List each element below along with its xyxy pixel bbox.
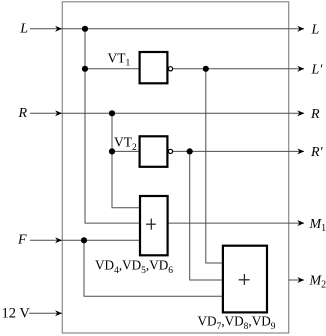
wire L branch down to adder VD4-6 input 2 [85, 69, 140, 223]
wire F branch down to adder VD7-9 input 3 [84, 240, 223, 296]
wire F line to adder VD4-6 input 3 [62, 239, 140, 241]
wire R' output from VT2 bubble to arrow [173, 150, 304, 152]
wire R branch down to adder VD4-6 input 1 [112, 151, 140, 207]
wire F input with arrow into block [30, 239, 62, 241]
outer block boundary [62, 2, 288, 333]
plus sign in VD4-6 adder [146, 219, 156, 230]
wire R line through block to output arrow [62, 112, 304, 114]
transistor switch VT1 box [140, 52, 168, 83]
inverter bubble of VT2 [168, 149, 172, 153]
node L' junction [203, 66, 209, 72]
node VT2 input junction [109, 148, 115, 154]
node F junction [81, 237, 87, 243]
node R' junction [187, 148, 193, 154]
node VT1 input junction [82, 66, 88, 72]
wire 12V input with arrow into block [29, 312, 62, 314]
wire VT2 input segment [111, 113, 113, 151]
svg-text:R: R [17, 106, 27, 121]
wire M2 output stub to arrow [289, 279, 304, 281]
svg-text:R′: R′ [310, 145, 324, 160]
svg-text:F: F [17, 233, 27, 248]
svg-text:L′: L′ [311, 63, 324, 78]
svg-text:R: R [310, 107, 320, 122]
wire VT1 input segment [84, 29, 86, 69]
wire R input with arrow into block [30, 112, 62, 114]
svg-text:12 V: 12 V [2, 305, 31, 321]
plus sign in VD7-9 adder [239, 274, 250, 285]
transistor switch VT2 box [140, 136, 168, 167]
diode adder VD4,VD5,VD6 box [140, 196, 168, 255]
wire R' branch down to adder VD7-9 input 2 [190, 151, 223, 280]
wire M1 output from adder VD4-6 to arrow [168, 222, 305, 224]
wire L' output from VT1 bubble to arrow [173, 68, 304, 70]
diode adder VD7,VD8,VD9 box [223, 246, 267, 313]
node L junction [82, 26, 88, 32]
svg-text:L: L [311, 23, 320, 38]
wire L' branch down to adder VD7-9 input 1 [206, 69, 223, 263]
node R junction [109, 110, 115, 116]
wire L input with arrow into block [30, 28, 62, 30]
inverter bubble of VT1 [168, 67, 172, 71]
wire L line through block to output arrow [62, 28, 304, 30]
svg-text:L: L [19, 22, 28, 37]
